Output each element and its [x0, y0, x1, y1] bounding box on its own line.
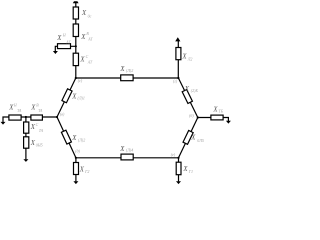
arrow up top-right — [175, 37, 180, 41]
svg-text:(г): (г) — [173, 78, 178, 83]
node BR dot — [177, 157, 179, 159]
wire bottom-left chain — [75, 158, 77, 182]
wire right branch — [198, 118, 229, 122]
svg-text:АТ: АТ — [87, 38, 93, 42]
svg-text:X: X — [81, 10, 87, 17]
svg-text:0Н5: 0Н5 — [36, 143, 43, 148]
wire XH_AT branch — [55, 46, 76, 51]
svg-text:(б): (б) — [189, 113, 194, 118]
node R dot — [197, 116, 199, 118]
svg-text:С: С — [36, 123, 39, 127]
resistor XH_AT — [58, 44, 71, 49]
svg-text:X: X — [71, 135, 77, 142]
svg-text:(с): (с) — [78, 78, 83, 83]
svg-text:С: С — [86, 55, 89, 59]
svg-text:Г2: Г2 — [84, 169, 89, 174]
node BL dot — [75, 157, 77, 159]
resistor XG2 bottom left — [74, 163, 79, 175]
svg-text:(Л)2: (Л)2 — [78, 138, 85, 143]
resistor diag A-L — [62, 89, 72, 103]
resistor XG1 bottom right — [176, 162, 181, 175]
resistor XT6 right — [211, 115, 223, 120]
svg-text:X: X — [56, 35, 62, 42]
wire bottom-right chain — [178, 158, 180, 182]
resistor XL4 bottom center — [121, 154, 133, 160]
wire top-right chain vertical — [177, 41, 179, 79]
arrow down left end — [1, 122, 6, 125]
resistor XB_TA — [31, 115, 43, 120]
svg-text:X: X — [119, 146, 125, 153]
resistor XH5 — [24, 137, 29, 148]
wire bottom edge — [76, 157, 179, 159]
node L dot — [56, 116, 58, 118]
svg-text:X: X — [79, 57, 85, 64]
junction left chain dot — [25, 116, 27, 118]
junction XH_AT dot — [75, 45, 77, 47]
wire left chain horizontal — [3, 117, 57, 122]
svg-text:X: X — [79, 166, 85, 173]
svg-text:АТ: АТ — [65, 40, 71, 44]
arrow down right branch — [226, 121, 231, 124]
svg-text:X: X — [80, 34, 86, 41]
arrow up top-left — [73, 1, 79, 3]
svg-text:ТА: ТА — [39, 129, 44, 133]
svg-text:X: X — [184, 86, 190, 93]
wire diagonal L to BL — [57, 117, 76, 158]
wire top-left chain vertical — [75, 3, 77, 78]
svg-text:0с: 0с — [88, 13, 92, 18]
wire left chain vertical drop — [25, 117, 27, 159]
resistor diag L-BL — [61, 130, 71, 144]
svg-text:(Л)2: (Л)2 — [126, 68, 133, 73]
svg-text:ТА: ТА — [17, 109, 22, 113]
svg-text:(в): (в) — [60, 111, 65, 116]
svg-text:(Л)1: (Л)1 — [78, 96, 85, 101]
resistor XL1 top center — [121, 75, 133, 81]
svg-text:Н: Н — [13, 103, 17, 107]
svg-text:АТ: АТ — [87, 61, 93, 65]
resistor XC_TA — [24, 122, 29, 133]
svg-text:Г1: Г1 — [188, 169, 193, 174]
svg-text:ТБ: ТБ — [219, 109, 224, 114]
resistor X0c — [73, 7, 78, 19]
resistor diag R-BR — [183, 130, 193, 144]
svg-text:X: X — [119, 66, 125, 73]
svg-text:X: X — [30, 105, 36, 112]
resistor XC_AT — [73, 53, 78, 65]
wire top edge — [76, 77, 179, 79]
resistor diag B-R — [182, 90, 192, 104]
arrow down XH_AT branch — [53, 51, 58, 54]
svg-text:X: X — [71, 93, 77, 100]
resistor XH_TA — [9, 115, 21, 120]
svg-text:Н: Н — [62, 33, 66, 37]
arrow down bottom-right — [176, 181, 181, 184]
node B dot — [177, 77, 179, 79]
node A dot — [75, 77, 77, 79]
arrow down left chain — [23, 159, 28, 162]
wire diagonal R to BR — [179, 118, 198, 158]
arrow down bottom-left — [73, 181, 78, 184]
svg-text:ТА: ТА — [38, 109, 43, 113]
svg-text:(д): (д) — [75, 148, 80, 153]
svg-text:X: X — [190, 135, 196, 142]
svg-text:0Л5: 0Л5 — [197, 138, 204, 143]
resistor XL2 top right — [176, 48, 181, 60]
svg-text:X: X — [181, 54, 187, 61]
wire diagonal A to L — [57, 78, 76, 117]
svg-text:(е): (е) — [171, 152, 176, 157]
svg-text:(2)Б: (2)Б — [191, 88, 199, 93]
wire diagonal B to R — [178, 78, 197, 118]
svg-text:(Л)4: (Л)4 — [126, 148, 133, 153]
svg-text:Л2: Л2 — [187, 56, 193, 61]
svg-text:X: X — [182, 166, 188, 173]
svg-text:X: X — [212, 106, 218, 113]
resistor XB_AT — [73, 24, 78, 37]
